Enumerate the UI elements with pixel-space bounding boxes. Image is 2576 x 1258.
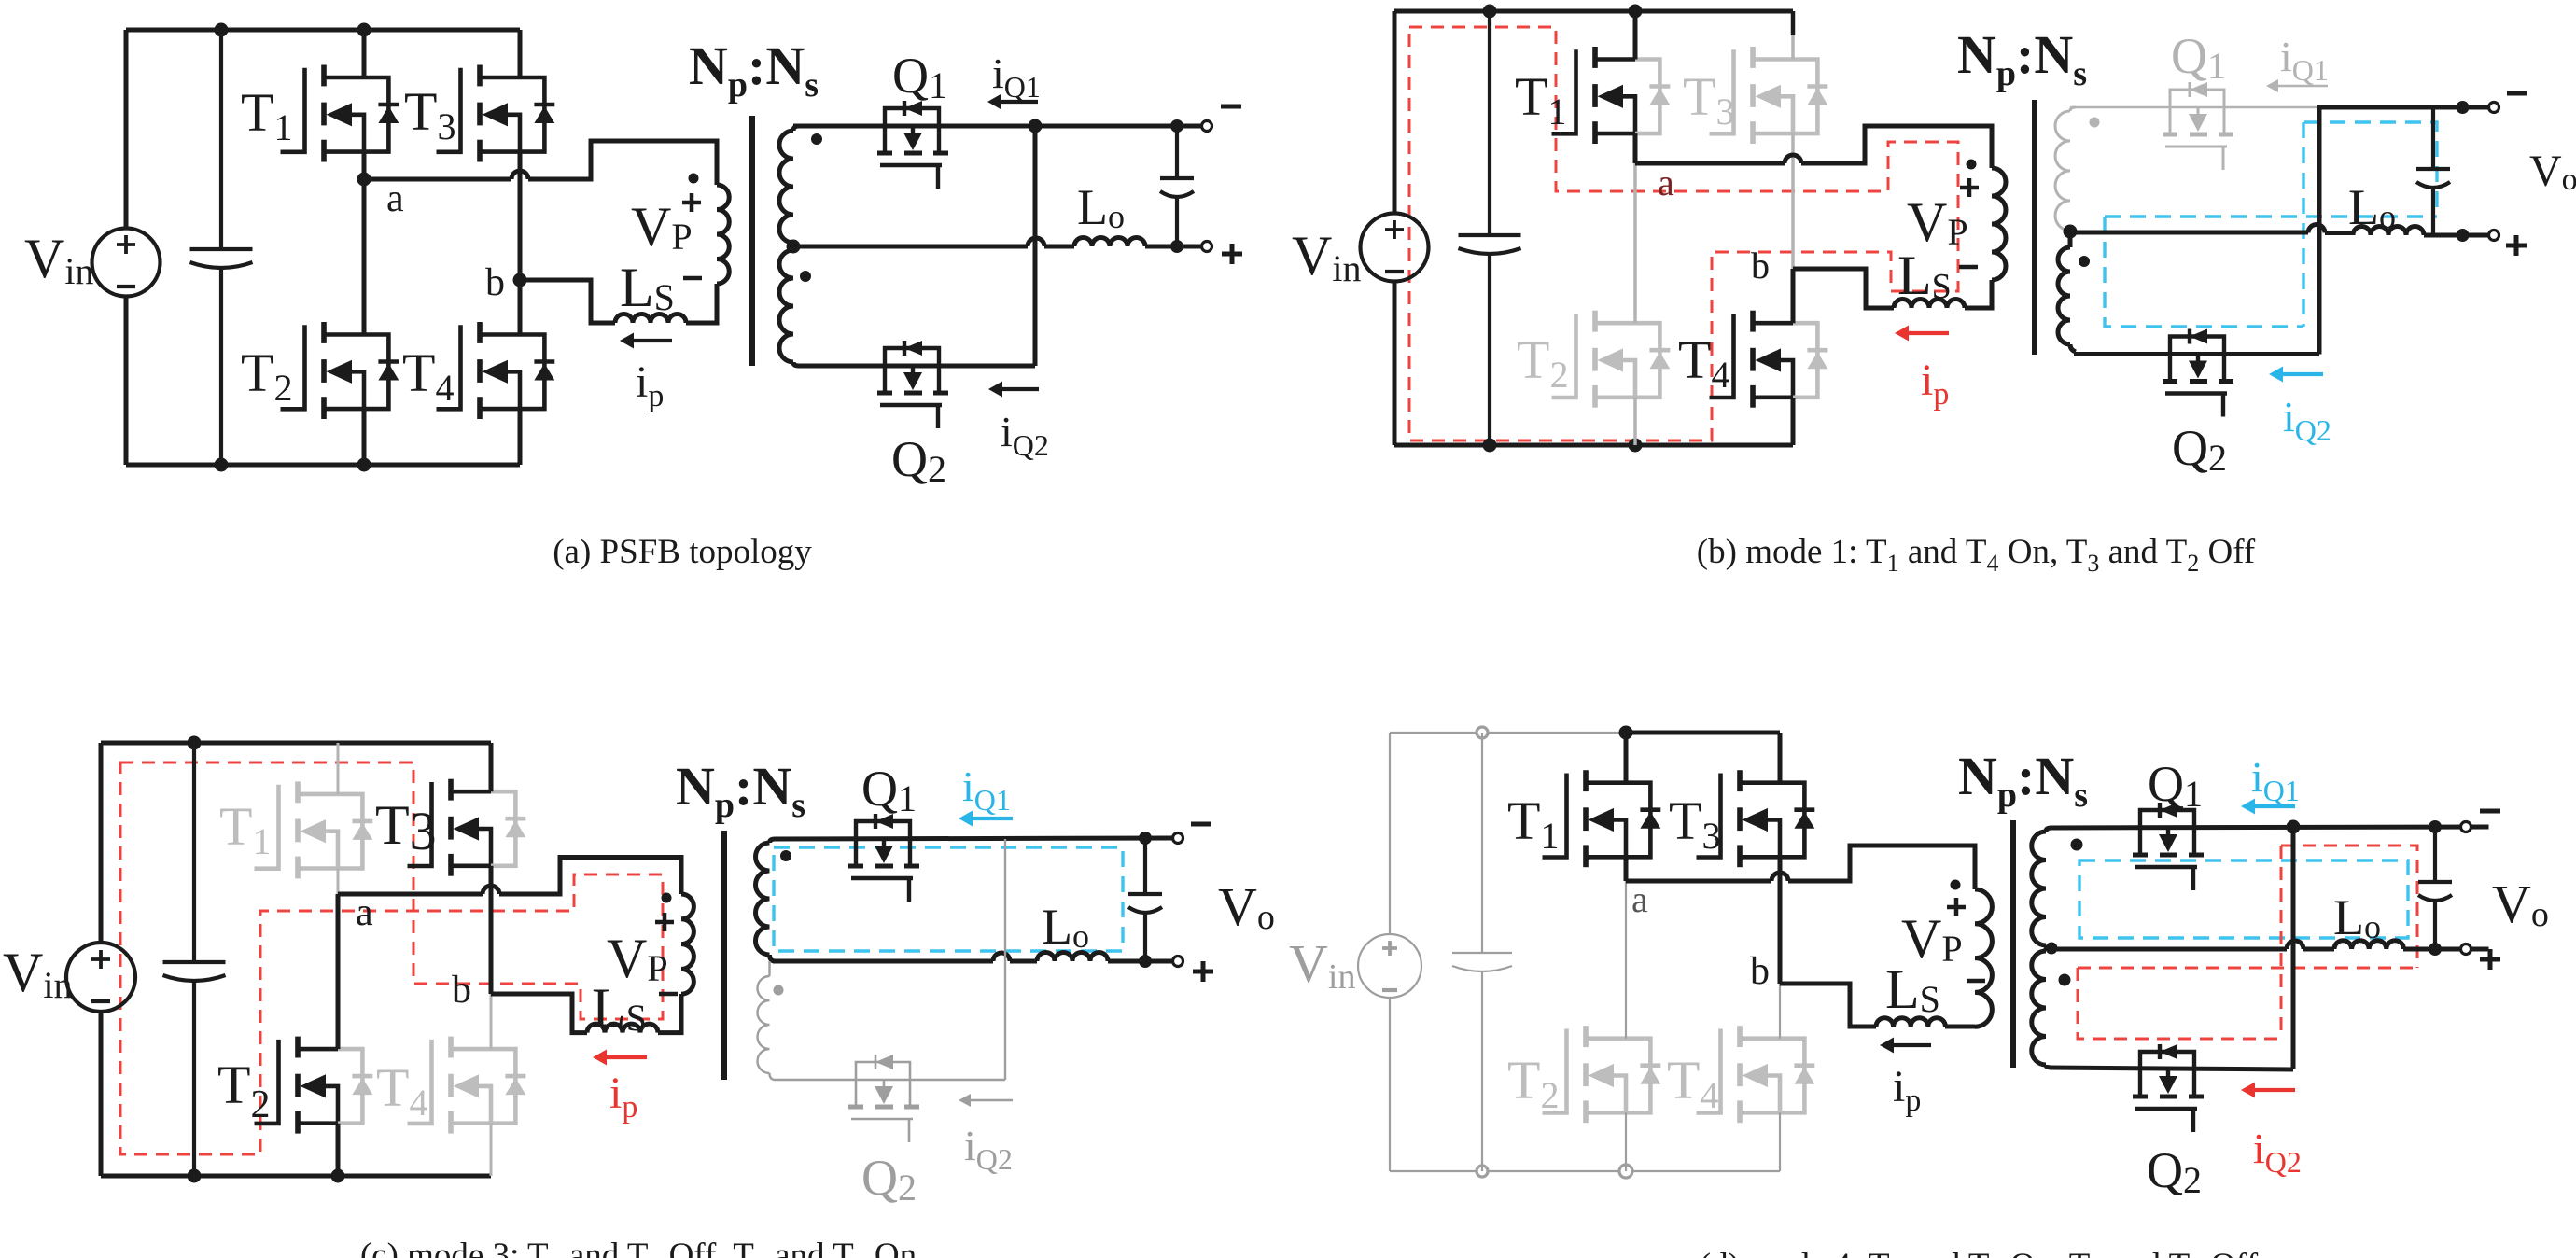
wire secondary bottom to Q2 (a) bbox=[799, 364, 1035, 369]
capacitor input grey (d) bbox=[1481, 733, 1483, 953]
capacitor output (c) bbox=[1143, 838, 1147, 894]
wire T4 source grey (d) bbox=[1779, 1112, 1781, 1171]
quadrant (b): mode 1 bbox=[1292, 5, 2576, 578]
inductor Lo (a) bbox=[1074, 238, 1145, 247]
wire Vin branch (a) bbox=[124, 30, 129, 465]
svg-text:b: b bbox=[452, 969, 471, 1012]
transistor T1 (b) bbox=[1552, 49, 1576, 133]
label - output (a) bbox=[1221, 105, 1241, 109]
hop a-wire over T3 branch (b) bbox=[1785, 155, 1801, 163]
label + output (c) bbox=[1193, 961, 1213, 982]
hop a-wire over T3 branch (c) bbox=[483, 886, 499, 894]
svg-text:Np:Ns: Np:Ns bbox=[676, 756, 805, 825]
wire T1 source to node a (b) bbox=[1633, 133, 1638, 163]
capacitor input (c) bbox=[192, 743, 196, 962]
wire secondary top to output - (a) bbox=[793, 124, 1202, 129]
arrow iQ2 blue (b) bbox=[2281, 372, 2323, 376]
wire node b to Ls (c) bbox=[491, 994, 587, 1033]
node dot top rail at cap (a) bbox=[215, 23, 229, 37]
wire node a to T2 grey (b) bbox=[1633, 163, 1637, 323]
wire node a to T2 drain (a) bbox=[362, 179, 367, 335]
wire node b to T4 drain (a) bbox=[518, 280, 523, 335]
wire T3 source to node b (d) bbox=[1778, 857, 1783, 984]
label + primary (d) bbox=[1947, 898, 1966, 916]
arrow ip (d) bbox=[1892, 1043, 1931, 1047]
transistor T4 grey (c) bbox=[408, 1040, 432, 1124]
label - output (b) bbox=[2507, 91, 2527, 96]
node dots rails (b) bbox=[1483, 5, 1497, 19]
secondary bottom dot (d) bbox=[2059, 974, 2071, 986]
wire T2 source grey (d) bbox=[1625, 1112, 1627, 1171]
terminal + (b) bbox=[2489, 231, 2499, 241]
capacitor output (b) bbox=[2431, 107, 2435, 169]
hop center line (b) bbox=[2308, 225, 2325, 233]
wire T2 source grey (b) bbox=[1633, 398, 1637, 445]
wire T1 drain grey (c) bbox=[337, 743, 340, 794]
secondary top winding (a) bbox=[779, 131, 793, 243]
node output + (d) bbox=[2429, 943, 2442, 956]
transformer core (b) bbox=[2032, 100, 2037, 355]
transistor T3 (d) bbox=[1697, 774, 1721, 858]
wire secondary bottom grey (c) bbox=[775, 1079, 1005, 1081]
svg-text:Np:Ns: Np:Ns bbox=[1957, 24, 2087, 93]
secondary top dot (a) bbox=[811, 133, 822, 145]
secondary top winding grey (b) bbox=[2055, 111, 2070, 231]
wire T3 source to node b (c) bbox=[489, 866, 494, 994]
node output top (a) bbox=[1029, 119, 1043, 133]
primary dot (b) bbox=[1967, 160, 1977, 170]
secondary top winding (c) bbox=[756, 843, 770, 955]
wire Lo to output + (b) bbox=[2424, 233, 2489, 238]
rectifier Q1 (c) bbox=[856, 821, 910, 839]
node dot bottom rail at cap (a) bbox=[215, 458, 229, 472]
arrow iQ1 blue (d) bbox=[2253, 804, 2295, 808]
center tap dot (a) bbox=[787, 240, 801, 254]
rectifier Q1 grey (b) bbox=[2170, 90, 2224, 107]
node output top junction (d) bbox=[2287, 820, 2301, 834]
primary dot (d) bbox=[1951, 880, 1961, 890]
svg-text:Np:Ns: Np:Ns bbox=[689, 35, 819, 105]
capacitor input (a) bbox=[219, 30, 223, 249]
wire T1 source grey (c) bbox=[337, 869, 340, 895]
inductor Lo (d) bbox=[2334, 941, 2403, 949]
wire top rail (b) bbox=[1394, 9, 1793, 14]
svg-text:(a) PSFB topology: (a) PSFB topology bbox=[553, 533, 812, 571]
wire node a to T2 grey (d) bbox=[1625, 881, 1627, 1039]
wire top rail (a) bbox=[126, 28, 520, 33]
inductor Ls (a) bbox=[615, 314, 686, 324]
primary winding (b) bbox=[1992, 168, 2006, 280]
node cap bottom (a) bbox=[1170, 240, 1183, 253]
center tap dot (b) bbox=[2064, 225, 2078, 239]
wire T1 source to node a (d) bbox=[1624, 857, 1629, 881]
wire T1 drain (b) bbox=[1633, 11, 1638, 60]
svg-text:b: b bbox=[485, 261, 505, 304]
wire T1 source to node a (a) bbox=[362, 152, 367, 179]
wire secondary top grey (b) bbox=[2070, 106, 2317, 109]
hop center line over Q branch (a) bbox=[1028, 238, 1044, 246]
transistor T3 (a) bbox=[437, 68, 461, 152]
current loop red dashed secondary (d) bbox=[2078, 846, 2417, 1039]
rectifier Q2 (b) bbox=[2170, 337, 2224, 355]
wire node b to Ls (b) bbox=[1793, 269, 1894, 308]
transistor T1 (d) bbox=[1543, 774, 1567, 858]
wire node a to primary top (b) bbox=[1635, 126, 1992, 168]
quadrant (d): mode 4 bbox=[1289, 726, 2549, 1258]
current loop primary red dashed (b) bbox=[1409, 27, 1958, 440]
terminal - (c) bbox=[1173, 833, 1183, 844]
arrow iQ2 red (d) bbox=[2253, 1088, 2295, 1092]
wire node b to Ls (a) bbox=[520, 280, 615, 323]
wire Vin branch (b) bbox=[1393, 11, 1397, 445]
wire Q2 to output grey (c) bbox=[1004, 839, 1006, 1080]
junction marker top cap (d) bbox=[1477, 727, 1488, 738]
label - primary (c) bbox=[659, 992, 678, 997]
arrow ip red (b) bbox=[1907, 331, 1949, 335]
svg-text:b: b bbox=[1751, 245, 1770, 287]
blue loop secondary (d) bbox=[2079, 860, 2408, 938]
primary dot (a) bbox=[689, 174, 699, 184]
wire Q2 to output node (d) bbox=[2291, 827, 2296, 1069]
wire T3 drain (c) bbox=[489, 743, 494, 791]
svg-text:Np:Ns: Np:Ns bbox=[1958, 746, 2088, 815]
wire secondary top to output - (d) bbox=[2050, 827, 2489, 828]
wire Q2 up to output (b) bbox=[2317, 107, 2322, 355]
transformer core (d) bbox=[2010, 820, 2016, 1068]
transistor T2 grey (b) bbox=[1552, 314, 1576, 398]
node output - (d) bbox=[2429, 820, 2442, 833]
svg-text:T3: T3 bbox=[375, 794, 437, 861]
wire bottom rail (a) bbox=[126, 463, 520, 468]
wire node b to T4 drain (b) bbox=[1791, 269, 1796, 323]
hop center line (c) bbox=[993, 953, 1010, 961]
wire T3 source to node b (a) bbox=[518, 152, 523, 280]
secondary bottom winding (d) bbox=[2032, 951, 2046, 1065]
wire bottom rail grey (d) bbox=[1390, 1170, 1780, 1172]
voltage source Vin (c) bbox=[66, 943, 135, 1012]
node b (a) bbox=[513, 273, 527, 287]
node cap top (a) bbox=[1170, 119, 1183, 133]
wire T4 source (a) bbox=[518, 409, 523, 465]
primary winding (a) bbox=[717, 185, 729, 284]
terminal + (d) bbox=[2461, 944, 2471, 955]
wire T3 drain grey (b) bbox=[1791, 11, 1796, 35]
primary winding (c) bbox=[681, 894, 693, 994]
capacitor output (a) bbox=[1175, 126, 1179, 178]
wire Ls to primary bottom (b) bbox=[1965, 280, 1992, 308]
terminal - (d) bbox=[2461, 822, 2471, 832]
wire T1 drain (a) bbox=[362, 30, 367, 77]
wire top rail (c) bbox=[101, 741, 491, 746]
transistor T1 (a) bbox=[281, 68, 305, 152]
voltage source Vin (b) bbox=[1361, 214, 1429, 282]
wire node a to primary top (d) bbox=[1626, 846, 1975, 889]
arrow ip (a) bbox=[632, 339, 672, 342]
wire bottom rail (c) bbox=[101, 1174, 491, 1179]
wire Lo to output + (a) bbox=[1145, 245, 1202, 249]
wire node b to Ls (d) bbox=[1780, 984, 1876, 1027]
voltage source Vin (a) bbox=[92, 229, 161, 297]
secondary bottom winding grey (c) bbox=[758, 976, 770, 1073]
wire center tap line (a) bbox=[793, 245, 1074, 249]
inductor Lo (c) bbox=[1037, 953, 1108, 962]
wire center line (c) bbox=[773, 959, 1037, 964]
wire Ls to primary bottom (d) bbox=[1945, 1025, 1975, 1029]
wire T3 drain (d) bbox=[1778, 733, 1783, 783]
secondary top dot (c) bbox=[780, 850, 791, 861]
transistor T4 (a) bbox=[437, 325, 461, 409]
wire Q2 to output node (a) bbox=[1033, 126, 1038, 366]
node a (a) bbox=[357, 173, 371, 187]
secondary top dot (d) bbox=[2071, 839, 2083, 851]
label + output (b) bbox=[2506, 235, 2527, 256]
capacitor output (d) bbox=[2433, 827, 2437, 882]
svg-text:a: a bbox=[356, 891, 373, 934]
wire T2 source (c) bbox=[336, 1124, 341, 1176]
node output + (c) bbox=[1139, 955, 1152, 968]
wire center tap line (b) bbox=[2070, 231, 2353, 236]
quadrant (a): PSFB topology bbox=[24, 23, 1242, 572]
wire T3 source to node b grey (b) bbox=[1791, 133, 1795, 269]
capacitor input (b) bbox=[1488, 11, 1491, 235]
transistor T2 grey (d) bbox=[1543, 1029, 1567, 1113]
hop center line (d) bbox=[2287, 941, 2303, 949]
secondary top winding (d) bbox=[2032, 832, 2046, 945]
secondary bottom dot grey (c) bbox=[774, 985, 784, 996]
hop a-wire over T3 branch (a) bbox=[511, 171, 528, 179]
transformer core (c) bbox=[721, 831, 727, 1080]
quadrant (c): mode 3 bbox=[3, 736, 1275, 1258]
node dot top rail (c) bbox=[188, 736, 202, 750]
wire T4 source (b) bbox=[1791, 398, 1796, 445]
wire Lo to output + (d) bbox=[2403, 947, 2489, 952]
hop a-wire over T3 branch (d) bbox=[1771, 873, 1788, 881]
svg-text:a: a bbox=[1631, 878, 1648, 920]
arrow iQ2 grey (c) bbox=[969, 1099, 1013, 1101]
terminal + (c) bbox=[1173, 957, 1183, 967]
primary dot (c) bbox=[662, 893, 672, 903]
label + output (d) bbox=[2480, 949, 2500, 970]
wire node a to T2 drain (c) bbox=[336, 894, 341, 1049]
inductor Ls (b) bbox=[1894, 300, 1965, 309]
transistor T3 (c) bbox=[408, 782, 432, 866]
wire Vin branch grey (d) bbox=[1389, 733, 1391, 1171]
node dot bottom rail at T2 branch (a) bbox=[357, 458, 371, 472]
secondary bottom winding (b) bbox=[2058, 247, 2070, 344]
inductor Lo (b) bbox=[2353, 227, 2424, 236]
wire Lo to output + (c) bbox=[1108, 959, 1173, 964]
rectifier Q2 grey (c) bbox=[856, 1062, 910, 1080]
wire top rail black part (d) bbox=[1626, 731, 1780, 735]
wire bottom rail (b) bbox=[1394, 443, 1793, 448]
wire secondary bottom to Q2 (d) bbox=[2050, 1068, 2293, 1069]
transistor T4 grey (d) bbox=[1697, 1029, 1721, 1113]
wire top rail grey part (d) bbox=[1390, 732, 1626, 734]
wire center line (d) bbox=[2051, 947, 2334, 952]
label - primary (d) bbox=[1967, 979, 1985, 984]
label + output (a) bbox=[1222, 244, 1242, 264]
secondary bottom winding (a) bbox=[779, 250, 793, 362]
label - output (c) bbox=[1191, 822, 1211, 827]
voltage source Vin grey (d) bbox=[1358, 934, 1421, 998]
node dots bottom rail (c) bbox=[188, 1169, 202, 1183]
terminal + (a) bbox=[1202, 242, 1212, 252]
wire node a to primary top (a) bbox=[364, 141, 717, 185]
wire T2 source (a) bbox=[362, 409, 367, 465]
node dot top rail T1 (d) bbox=[1619, 726, 1633, 740]
node output - (c) bbox=[1139, 832, 1152, 845]
label + primary (c) bbox=[655, 913, 674, 931]
center tap dot (d) bbox=[2046, 943, 2058, 955]
rectifier Q2 (a) bbox=[885, 348, 939, 366]
wire secondary bottom to Q2 (b) bbox=[2074, 352, 2319, 356]
wire output top (b) bbox=[2317, 105, 2489, 110]
inductor Ls (d) bbox=[1876, 1018, 1945, 1027]
svg-text:a: a bbox=[386, 177, 404, 220]
wire Ls to primary bottom (a) bbox=[686, 284, 717, 323]
label + primary (a) bbox=[682, 193, 701, 212]
svg-text:(d) mode 4: T1 and T3 On, T2 a: (d) mode 4: T1 and T3 On, T2 and T4 Off bbox=[1700, 1247, 2259, 1258]
secondary bottom dot (a) bbox=[800, 271, 811, 282]
arrow iQ1 grey (b) bbox=[2276, 85, 2328, 88]
terminal - (b) bbox=[2489, 103, 2499, 113]
arrow iQ1 (a) bbox=[1000, 100, 1038, 104]
wire Ls to primary bottom (c) bbox=[658, 994, 681, 1033]
node dot top rail at T1 branch (a) bbox=[357, 23, 371, 37]
terminal - (a) bbox=[1202, 121, 1212, 132]
rectifier Q1 (d) bbox=[2140, 810, 2194, 828]
svg-text:a: a bbox=[1658, 161, 1674, 203]
transistor T4 (b) bbox=[1710, 314, 1734, 398]
wire T1 drain (d) bbox=[1624, 733, 1629, 783]
blue loop secondary (b) bbox=[2105, 122, 2437, 327]
svg-text:(b) mode 1: T1 and T4 On, T3 a: (b) mode 1: T1 and T4 On, T3 and T2 Off bbox=[1697, 533, 2256, 577]
label + primary (b) bbox=[1960, 178, 1979, 197]
primary winding (d) bbox=[1975, 889, 1992, 1027]
svg-text:(c) mode 3: T1 and T4 Off, T2: (c) mode 3: T1 and T4 Off, T2 and T3 On bbox=[360, 1237, 917, 1258]
secondary top dot grey (b) bbox=[2090, 118, 2100, 128]
transformer core (a) bbox=[749, 116, 755, 366]
node output + (b) bbox=[2457, 229, 2470, 242]
transistor T2 (a) bbox=[281, 325, 305, 409]
svg-text:b: b bbox=[1750, 950, 1770, 993]
rectifier Q1 (a) bbox=[885, 108, 939, 126]
label - output (d) bbox=[2480, 809, 2500, 814]
wire node b to T4 grey (c) bbox=[490, 994, 493, 1049]
blue loop secondary (c) bbox=[774, 847, 1123, 951]
wire node a to primary top (c) bbox=[338, 858, 681, 895]
junction marker bottom T2 (d) bbox=[1619, 1165, 1632, 1178]
wire node b to T4 grey (d) bbox=[1779, 984, 1781, 1039]
transistor T1 grey (c) bbox=[255, 785, 279, 869]
arrow iQ2 (a) bbox=[1001, 387, 1039, 391]
node output - (b) bbox=[2457, 101, 2470, 114]
arrow ip red (c) bbox=[605, 1055, 647, 1059]
wire T3 drain (a) bbox=[518, 30, 523, 77]
current loop primary red dashed (c) bbox=[120, 762, 663, 1154]
transistor T2 (c) bbox=[255, 1040, 279, 1124]
junction marker bottom cap (d) bbox=[1477, 1166, 1488, 1177]
inductor Ls (c) bbox=[587, 1024, 658, 1033]
wire Vin branch (c) bbox=[99, 743, 104, 1176]
transistor T3 grey (b) bbox=[1710, 49, 1734, 133]
wire secondary top to output - (c) bbox=[775, 838, 1173, 839]
label - primary (a) bbox=[683, 276, 702, 281]
rectifier Q2 (d) bbox=[2140, 1052, 2194, 1069]
label - primary (b) bbox=[1959, 265, 1978, 270]
secondary bottom dot (b) bbox=[2079, 256, 2090, 267]
arrow iQ1 blue (c) bbox=[971, 817, 1013, 820]
wire T4 source grey (c) bbox=[490, 1124, 493, 1176]
